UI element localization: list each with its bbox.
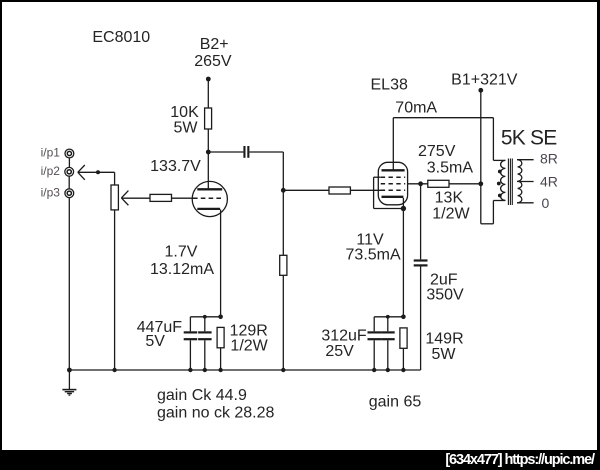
- svg-text:5V: 5V: [145, 333, 165, 350]
- svg-text:gain Ck 44.9: gain Ck 44.9: [157, 387, 247, 404]
- svg-text:73.5mA: 73.5mA: [346, 247, 401, 264]
- svg-text:10K: 10K: [170, 104, 199, 121]
- svg-text:EL38: EL38: [371, 77, 408, 94]
- svg-text:1/2W: 1/2W: [432, 206, 470, 223]
- svg-text:0: 0: [542, 195, 550, 211]
- svg-text:8R: 8R: [540, 151, 558, 167]
- svg-text:3.5mA: 3.5mA: [427, 160, 474, 177]
- svg-text:275V: 275V: [418, 143, 456, 160]
- svg-text:[634x477] https://upic.me/: [634x477] https://upic.me/: [445, 452, 595, 468]
- svg-text:gain 65: gain 65: [369, 394, 422, 411]
- svg-text:350V: 350V: [426, 287, 464, 304]
- svg-text:1/2W: 1/2W: [230, 338, 268, 355]
- svg-text:i/p1: i/p1: [41, 146, 61, 160]
- svg-text:5K SE: 5K SE: [501, 126, 557, 149]
- svg-text:25V: 25V: [325, 343, 354, 360]
- svg-text:5W: 5W: [432, 346, 457, 363]
- svg-text:312uF: 312uF: [321, 328, 367, 345]
- svg-text:13.12mA: 13.12mA: [150, 261, 214, 278]
- svg-text:265V: 265V: [194, 53, 232, 70]
- svg-text:gain no ck 28.28: gain no ck 28.28: [157, 405, 275, 422]
- svg-text:i/p3: i/p3: [41, 186, 61, 200]
- svg-text:4R: 4R: [540, 174, 558, 190]
- svg-text:1.7V: 1.7V: [165, 244, 198, 261]
- svg-text:133.7V: 133.7V: [150, 158, 201, 175]
- svg-text:149R: 149R: [425, 331, 463, 348]
- svg-text:B1+321V: B1+321V: [451, 72, 518, 89]
- svg-text:5W: 5W: [174, 120, 199, 137]
- svg-text:i/p2: i/p2: [41, 164, 61, 178]
- svg-text:EC8010: EC8010: [92, 29, 150, 46]
- svg-text:13K: 13K: [435, 190, 464, 207]
- svg-text:B2+: B2+: [200, 36, 229, 53]
- svg-text:70mA: 70mA: [395, 100, 437, 117]
